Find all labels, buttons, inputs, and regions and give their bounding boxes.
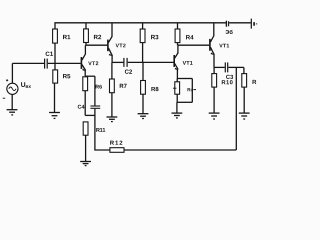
label minus battery terminal <box>256 23 257 25</box>
wire node F to VT1 upper base <box>178 44 210 46</box>
label plus polarity <box>6 79 8 81</box>
label Uvx <box>21 82 31 88</box>
wire top supply rail right section <box>229 22 251 24</box>
capacitor Eb on rail <box>226 21 228 27</box>
capacitor C2 <box>124 58 127 67</box>
label R11 <box>96 128 105 132</box>
wire input to C1 <box>12 62 44 64</box>
voltage source Uvx <box>7 83 18 94</box>
wire R4 top stub <box>177 23 179 29</box>
wire loop bottom <box>177 101 192 103</box>
battery supply <box>251 19 254 29</box>
wire R4 bottom to node F <box>177 43 179 46</box>
label C3 <box>226 75 233 79</box>
wire cross connector to feedback column <box>85 114 95 116</box>
wire R6 bottom down <box>84 91 86 116</box>
resistor R10 <box>212 74 217 88</box>
ground below emitter loop <box>172 113 183 118</box>
label R load <box>253 80 257 84</box>
label C2 <box>125 70 132 74</box>
label R5 <box>63 74 70 78</box>
wire loop right branch <box>191 79 193 103</box>
wire R3 top stub <box>142 23 144 29</box>
capacitor C4 <box>90 106 100 108</box>
resistor R9 emitter <box>175 82 180 94</box>
label R4 <box>186 35 193 39</box>
wire R12 to output column <box>124 149 236 151</box>
ground below R8 <box>138 114 149 119</box>
wire R load to ground <box>243 87 245 113</box>
capacitor C1 <box>45 59 48 69</box>
wire node B to VT2 upper base <box>85 44 107 46</box>
wire R10 to ground <box>213 87 215 113</box>
wire node G to C3 <box>214 66 225 68</box>
ground below R5 <box>49 113 60 119</box>
wire node C down to R7 <box>111 62 113 79</box>
wire feedback column lower <box>95 109 110 150</box>
node A junction stub <box>54 63 56 70</box>
resistor R3 <box>140 29 145 43</box>
label VT2 upper <box>116 44 126 48</box>
resistor R12 <box>110 148 124 153</box>
wire R8 to ground <box>142 94 144 114</box>
wire VT1 upper emitter down to node G <box>213 54 215 68</box>
wire R3 bottom to node D <box>142 43 144 63</box>
wire node G down to R10 <box>213 67 215 73</box>
wire node B down to VT2 lower collector <box>84 45 86 54</box>
label VT2 lower <box>88 61 98 65</box>
label R9 <box>188 88 193 91</box>
ground below R11 <box>80 162 91 166</box>
label minus polarity <box>3 97 5 99</box>
capacitor C9 plate tick on right branch <box>193 89 196 91</box>
wire R2 bottom to node B <box>85 43 87 46</box>
ground below R load <box>239 113 250 119</box>
wire R2 top stub <box>85 23 87 29</box>
transistor VT1 lower <box>174 53 178 70</box>
resistor R5 <box>53 70 58 83</box>
resistor R8 <box>141 81 146 95</box>
wire corner down to R load <box>243 67 245 73</box>
ground below R7 <box>107 117 118 122</box>
ground below R10 <box>209 113 220 119</box>
label R3 <box>151 35 158 39</box>
label C4 <box>78 105 85 109</box>
wire source bottom <box>11 94 13 109</box>
wire output column <box>235 67 237 150</box>
wire node D down to R8 <box>142 62 144 80</box>
wire top supply rail left section <box>55 23 226 29</box>
transistor VT2 upper <box>108 37 113 57</box>
label R7 <box>120 84 127 88</box>
transistor VT1 upper <box>210 36 215 55</box>
wire loop to ground <box>176 102 178 113</box>
label C1 <box>46 52 54 56</box>
wire emitter loop top <box>177 78 192 80</box>
wire C2 to VT1 lower base <box>128 61 174 63</box>
label R6 <box>96 85 102 89</box>
resistor R6 <box>83 77 88 91</box>
wire node E to feedback column <box>85 75 95 77</box>
resistor R load <box>242 74 247 88</box>
resistor R4 <box>175 29 180 43</box>
wire loop left stub bottom <box>176 94 178 102</box>
transistor VT2 lower <box>81 54 86 71</box>
wire R1 bottom to input node <box>54 43 56 63</box>
resistor R11 <box>83 122 88 135</box>
label R10 <box>222 80 233 84</box>
resistor R7 <box>110 79 115 93</box>
wire R7 to ground <box>111 93 113 117</box>
label R8 <box>151 87 158 91</box>
label VT1 lower <box>183 61 193 65</box>
tick on R9 <box>173 87 176 89</box>
wire node F down to VT1 lower collector <box>177 45 179 53</box>
wire source top up <box>11 63 13 83</box>
wire C1 to node A <box>48 62 81 64</box>
wire feedback column upper <box>94 76 96 105</box>
wire VT2 upper emitter down to node C <box>111 55 113 62</box>
wire VT2 upper collector to rail <box>111 23 113 37</box>
capacitor C3 <box>225 62 227 72</box>
ground below source <box>7 110 18 115</box>
wire VT1 upper collector to rail <box>213 23 215 37</box>
resistor R1 <box>53 29 58 43</box>
wire C3 to load corner <box>228 66 244 68</box>
wire VT2 lower emitter down to node E <box>84 70 86 76</box>
wire node C to C2 <box>112 61 123 63</box>
wire VT1 lower emitter down <box>176 69 178 79</box>
resistor R2 <box>84 29 89 43</box>
label R2 <box>94 35 101 39</box>
wire loop left stub top <box>176 79 178 82</box>
wire R11 to ground <box>85 135 87 161</box>
wire R5 to ground <box>54 83 56 112</box>
label VT1 upper <box>219 44 229 48</box>
label R1 <box>63 35 70 39</box>
label Eb <box>225 30 232 34</box>
label R12 <box>110 141 122 145</box>
